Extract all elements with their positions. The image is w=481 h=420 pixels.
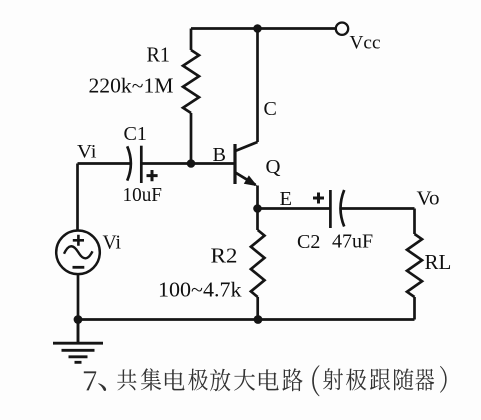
capacitor C1 polarity plus sign: [147, 170, 158, 181]
node junction dot collector/top-rail: [253, 24, 262, 33]
svg-text:C: C: [264, 98, 277, 120]
resistor R2: [251, 209, 265, 320]
transistor Q collector diagonal: [236, 142, 258, 151]
svg-text:C1: C1: [124, 124, 148, 145]
node junction dot emitter E: [253, 204, 262, 213]
ground symbol: [53, 320, 103, 363]
node junction dot R2 bottom: [254, 315, 263, 324]
svg-text:RL: RL: [425, 250, 452, 274]
wire source to ground node: [77, 274, 80, 319]
wire C1 to base: [141, 162, 235, 165]
svg-text:Vi: Vi: [103, 232, 122, 254]
capacitor C2 polarity plus sign: [313, 193, 324, 204]
svg-text:R1: R1: [147, 43, 171, 67]
svg-text:Vi: Vi: [77, 143, 97, 163]
capacitor C1 curved negative plate: [127, 146, 131, 180]
svg-text:10uF: 10uF: [123, 185, 163, 206]
capacitor C1 straight positive plate: [140, 146, 143, 183]
svg-text:Vcc: Vcc: [350, 34, 381, 54]
svg-text:C2: C2: [297, 231, 320, 253]
node junction dot ground: [74, 315, 83, 324]
svg-text:B: B: [213, 144, 227, 166]
wire collector vertical: [256, 29, 259, 143]
transistor Q emitter diagonal: [236, 173, 256, 185]
source Vi circle: [56, 231, 100, 275]
source minus sign: [73, 266, 85, 269]
wire emitter vertical to E node: [256, 186, 259, 209]
capacitor C2 curved negative plate: [341, 190, 345, 227]
capacitor C2 straight positive plate: [329, 190, 332, 228]
svg-text:E: E: [280, 189, 293, 210]
wire top rail from R1 top to Vcc terminal: [191, 27, 336, 30]
wire input corner down to source: [76, 164, 79, 231]
source sine wave: [64, 246, 93, 258]
source plus sign: [73, 235, 84, 246]
svg-text:47uF: 47uF: [332, 231, 373, 253]
svg-text:Q: Q: [266, 156, 282, 178]
svg-text:220k~1M: 220k~1M: [89, 74, 174, 98]
resistor RL: [407, 209, 422, 320]
wire bottom rail: [78, 318, 415, 321]
caption 7、共集电极放大电路（射极跟随器）: [84, 365, 447, 396]
terminal Vcc open circle: [336, 23, 348, 35]
svg-text:Vo: Vo: [417, 189, 440, 210]
transistor Q emitter arrowhead: [245, 176, 257, 185]
wire C2 to RL corner: [341, 207, 415, 210]
resistor R1: [183, 29, 199, 164]
wire E node to C2: [258, 207, 331, 210]
transistor Q base bar: [233, 144, 236, 184]
svg-text:100~4.7k: 100~4.7k: [158, 278, 242, 302]
node junction dot base/R1: [187, 159, 196, 168]
wire input corner to C1: [78, 162, 131, 165]
svg-text:R2: R2: [211, 244, 238, 268]
